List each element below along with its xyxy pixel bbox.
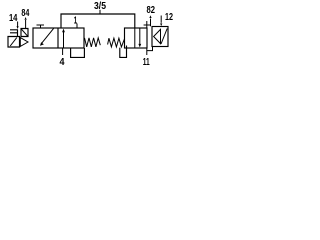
- manual override diagonal: [21, 29, 28, 36]
- svg-text:12: 12: [165, 12, 173, 23]
- blocked port cross on valve V2: [144, 21, 150, 28]
- electrical connector (left solenoid leads): [10, 29, 18, 36]
- pilot box (right solenoid assembly): [152, 27, 168, 47]
- return spring (valve V2): [108, 38, 125, 47]
- flow path arrow (actuated position, diagonal): [42, 28, 54, 43]
- pilot port 14 arrow: [17, 22, 19, 30]
- valve V1 position divider: [57, 28, 59, 48]
- return spring (valve V1): [85, 38, 101, 47]
- solenoid Y2 diagonal: [161, 29, 167, 45]
- solenoid coil Y1 (box with diagonal): [8, 37, 20, 48]
- pilot exhaust 82 arrow: [149, 15, 151, 26]
- svg-text:3/5: 3/5: [94, 1, 106, 12]
- port 1 tick on valve V1: [76, 24, 78, 29]
- port 3/5 tick on rail: [99, 10, 101, 14]
- wire: supply rail port 1: [61, 14, 135, 28]
- svg-text:14: 14: [9, 13, 18, 24]
- svg-text:1: 1: [74, 15, 78, 26]
- pilot triangle (left, pointing to valve): [20, 38, 28, 47]
- flow path arrow (rest position, vertical up): [63, 32, 65, 49]
- valve V1 body (3/2 valve, two position boxes): [33, 28, 84, 48]
- manual override box (left, box with diagonal): [21, 29, 28, 37]
- flow path arrow (valve V2, vertical down): [139, 28, 141, 44]
- port 4 tick: [62, 48, 64, 55]
- exhaust bracket under valve V2: [120, 46, 127, 58]
- solenoid Y1 diagonal: [10, 38, 17, 46]
- exhaust bracket under valve V1: [71, 48, 85, 57]
- port 11 tick: [146, 48, 148, 55]
- svg-text:82: 82: [147, 5, 156, 16]
- svg-text:4: 4: [60, 57, 65, 67]
- flow path line (valve V2, supply vertical): [134, 28, 136, 48]
- pilot triangle (right, pointing to valve): [154, 29, 161, 43]
- pilot supply branch (port 11 to pilot box): [147, 47, 153, 51]
- blocked port symbol (T) on valve V1: [37, 25, 45, 28]
- svg-text:11: 11: [143, 57, 150, 67]
- pilot port 12 arrow: [160, 16, 162, 27]
- pilot exhaust 84 arrow: [25, 17, 27, 29]
- valve V2 body: [125, 28, 148, 48]
